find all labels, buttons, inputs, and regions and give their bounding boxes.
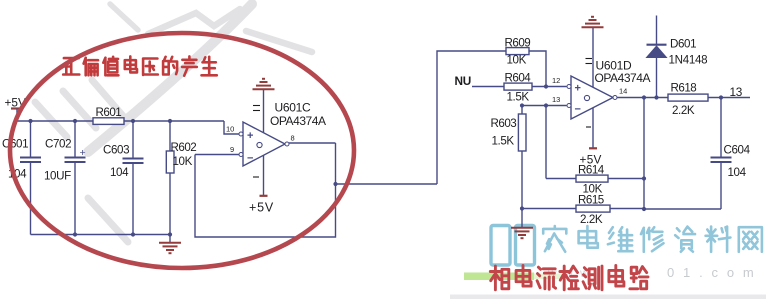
svg-text:U601C: U601C (275, 101, 311, 115)
resistor R602 (169, 121, 171, 151)
svg-text:C603: C603 (103, 144, 129, 157)
pin number 4 (rotated, power) (586, 126, 591, 128)
svg-text:D601: D601 (670, 38, 696, 51)
wire output pin8 (289, 142, 336, 144)
node pin13 junctions (520, 103, 524, 107)
wire op-amp bottom power (263, 155, 265, 195)
resistor R615 (522, 208, 576, 210)
resistor R609 (506, 48, 529, 55)
svg-text:14: 14 (619, 87, 627, 96)
wire R609 to pin12 net (529, 51, 546, 87)
svg-text:2.2K: 2.2K (672, 104, 695, 117)
ground (above U601D) (582, 26, 604, 28)
wire +5V stub (16, 109, 18, 122)
op-amp U601D (571, 76, 613, 119)
wire output pin14 (617, 97, 668, 99)
svg-text:−: − (575, 104, 581, 116)
svg-text:R604: R604 (505, 72, 532, 85)
svg-text:OPA4374A: OPA4374A (270, 114, 326, 128)
wire pin13 net (522, 105, 567, 107)
node output junctions (642, 95, 646, 99)
gray background watermark strokes (35, 4, 312, 242)
wire op-amp top power (263, 90, 265, 133)
resistor R601 (93, 118, 124, 125)
node top rail junctions (28, 119, 32, 123)
green highlight bar (464, 273, 534, 281)
node bottom rail junctions (73, 232, 77, 236)
svg-text:1.5K: 1.5K (492, 135, 515, 148)
wire R604 to pin12 (532, 86, 567, 88)
svg-text:8: 8 (291, 134, 295, 143)
wire bottom rail right (644, 208, 721, 210)
wire to right stage (336, 183, 438, 185)
wire U601D top power (592, 28, 594, 87)
svg-text:2.2K: 2.2K (580, 213, 603, 226)
resistor R614 (546, 178, 576, 180)
wire riser to R609 (437, 51, 506, 184)
svg-text:13: 13 (730, 85, 743, 99)
resistor R604 (504, 83, 532, 90)
svg-text:C601: C601 (2, 138, 28, 151)
svg-text:−: − (247, 153, 253, 165)
pin number 11 (rotated, power) (253, 105, 260, 107)
bottom gray band (450, 295, 766, 299)
wire bottom rail (31, 234, 171, 236)
svg-text:104: 104 (728, 166, 747, 179)
resistor R618 (668, 94, 708, 101)
capacitor C601 (30, 121, 32, 157)
wire R618 to node 13 (708, 97, 750, 99)
svg-text:10: 10 (226, 125, 234, 134)
svg-text:+: + (80, 147, 86, 159)
svg-text:R603: R603 (491, 117, 517, 130)
svg-text:NU: NU (455, 74, 471, 88)
resistor R603 (521, 106, 523, 115)
ground (below R603) (521, 209, 523, 228)
svg-text:R601: R601 (96, 106, 122, 119)
svg-text:1N4148: 1N4148 (669, 54, 708, 67)
wire feedback loop U601C (195, 143, 336, 237)
svg-text:R602: R602 (171, 141, 197, 154)
wire pin13 to R614 riser (545, 106, 547, 179)
svg-text:OPA4374A: OPA4374A (595, 71, 651, 85)
diode D601 1N4148 (656, 16, 658, 45)
wire pin9 input (195, 154, 239, 156)
wire NU to R604 (472, 86, 504, 88)
svg-text:+: + (575, 83, 581, 95)
svg-text:R618: R618 (671, 82, 697, 95)
caption text 相电流检测电路 (490, 266, 509, 290)
ground (above U601C) (253, 88, 275, 90)
svg-text:10K: 10K (173, 155, 193, 168)
wire top rail (17, 120, 224, 122)
svg-text:R609: R609 (505, 37, 531, 50)
svg-text:R615: R615 (578, 194, 604, 207)
title text 正偏值电压的产生 (63, 58, 79, 74)
svg-text:12: 12 (552, 76, 560, 85)
svg-text:R614: R614 (578, 164, 605, 177)
svg-text:0 1 . c o m: 0 1 . c o m (667, 265, 756, 280)
capacitor C702 (polarized) (74, 121, 76, 157)
op-amp U601C (243, 122, 285, 166)
wire feedback riser (R614/R615 right) (643, 98, 645, 210)
capacitor C604 (720, 98, 722, 157)
watermark logo squares (491, 226, 535, 266)
svg-text:9: 9 (230, 145, 234, 154)
red highlight ellipse (10, 33, 354, 268)
wire U601D bottom power (592, 108, 594, 148)
svg-text:10UF: 10UF (44, 170, 71, 183)
ground (bottom rail) (169, 235, 171, 243)
svg-text:C604: C604 (724, 144, 751, 157)
wire step to pin10 (224, 121, 240, 134)
node output branch (333, 182, 337, 186)
svg-text:13: 13 (552, 95, 560, 104)
pin number 11 (rotated, power) (586, 58, 593, 60)
watermark text 家电维修资料网 (543, 226, 566, 252)
svg-text:104: 104 (110, 166, 129, 179)
svg-text:C702: C702 (45, 138, 71, 151)
svg-text:+: + (247, 130, 253, 142)
svg-text:+5V: +5V (249, 201, 274, 215)
node R609/R604 junction (544, 84, 548, 88)
capacitor C603 (132, 121, 134, 158)
pin number 4 (rotated, power) (253, 176, 259, 178)
svg-text:10K: 10K (507, 54, 527, 67)
svg-text:1.5K: 1.5K (507, 91, 530, 104)
